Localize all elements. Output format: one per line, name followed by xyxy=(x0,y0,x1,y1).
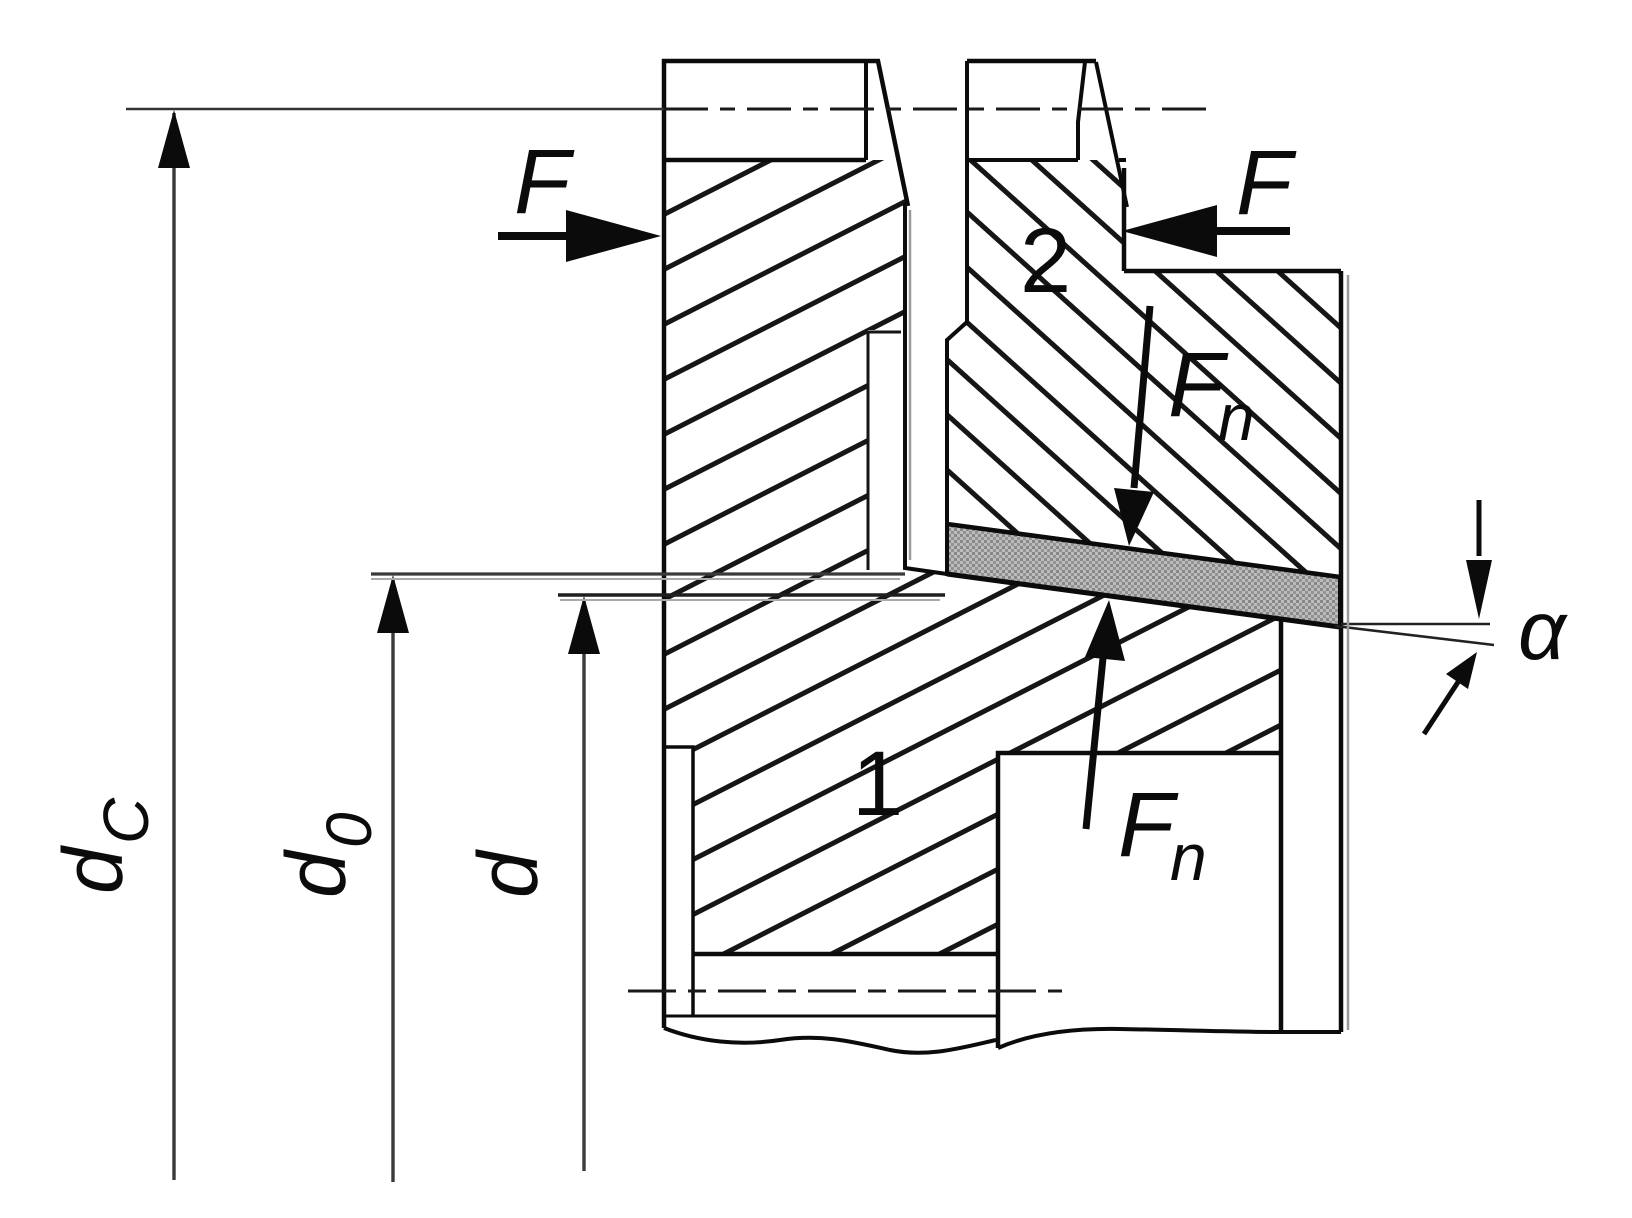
part 1 lower-right edge xyxy=(1279,620,1284,1032)
outer right edge xyxy=(1339,271,1344,1032)
svg-text:d: d xyxy=(461,849,555,898)
svg-text:d: d xyxy=(46,845,140,894)
svg-text:α: α xyxy=(1518,583,1568,677)
dimension line d0 xyxy=(371,572,905,575)
svg-text:C: C xyxy=(90,797,162,844)
part 2 collar bottom line xyxy=(967,158,1126,162)
force Fn lower xyxy=(1086,658,1103,829)
dimension line dC xyxy=(172,113,175,1180)
label d0 xyxy=(269,812,385,898)
part 2 flange top xyxy=(1124,269,1341,274)
part 2 outline xyxy=(967,59,1096,64)
part 1 outline xyxy=(664,61,908,1028)
svg-text:n: n xyxy=(1218,380,1255,454)
alpha arrow lower xyxy=(1424,676,1462,734)
svg-text:d: d xyxy=(269,849,363,898)
scan shadow lines xyxy=(1347,275,1350,1030)
dimension line d xyxy=(558,593,945,597)
part 1 break line xyxy=(664,1028,996,1053)
part 1 notch outline xyxy=(998,753,1281,1048)
svg-text:0: 0 xyxy=(313,812,385,848)
part 1 bore slot (white) xyxy=(868,330,903,570)
bottom centerline xyxy=(628,990,1062,993)
label dC xyxy=(46,797,162,894)
centerline top xyxy=(126,108,664,111)
part 1 thread tooth xyxy=(864,61,868,160)
force Fn upper xyxy=(1134,306,1150,488)
part 1 hatched body xyxy=(664,160,1281,954)
svg-text:F: F xyxy=(1236,132,1297,234)
alpha reference lines xyxy=(1341,623,1490,626)
part 1 collar bottom line xyxy=(664,158,866,163)
shaft break line right xyxy=(998,1029,1341,1048)
part 1 right edge xyxy=(905,203,947,574)
svg-text:n: n xyxy=(1170,820,1207,894)
svg-text:F: F xyxy=(514,131,575,233)
gray cone contact band xyxy=(947,524,1340,627)
part 1 lower inner line xyxy=(666,1015,996,1018)
cone bottom line xyxy=(947,574,1340,627)
part 2 thread tooth xyxy=(1078,62,1127,207)
part 1 left recess xyxy=(664,747,693,1016)
part 2 hatched body xyxy=(947,160,1339,577)
part 2 flange bottom on cone xyxy=(947,524,1340,577)
alpha arrow upper xyxy=(1477,500,1482,556)
svg-text:2: 2 xyxy=(1020,210,1071,312)
label d xyxy=(461,849,555,898)
svg-text:1: 1 xyxy=(852,733,903,835)
part 2 right edge upper xyxy=(1122,168,1127,271)
part 1 hatch bottom line xyxy=(693,952,996,957)
